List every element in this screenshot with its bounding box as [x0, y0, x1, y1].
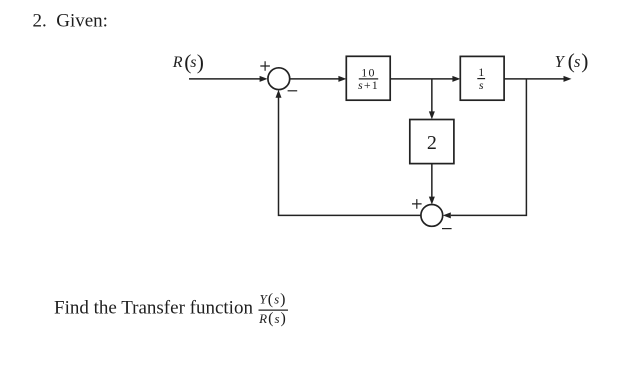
wire G3 to summing junction S2	[431, 164, 433, 197]
svg-text:): )	[581, 49, 588, 73]
arrowhead into block G1	[338, 76, 346, 82]
svg-text:R(s): R(s)	[258, 310, 287, 327]
fraction bar of G2	[477, 78, 485, 80]
svg-text:R: R	[172, 54, 183, 71]
svg-text:Y(s): Y(s)	[260, 291, 287, 308]
fraction bar of G1	[359, 78, 378, 80]
svg-text:Y: Y	[555, 52, 566, 71]
summing junction S1	[268, 68, 290, 90]
block G3 gain 2	[410, 120, 454, 164]
minus sign at S1	[288, 90, 298, 92]
fraction bar	[259, 309, 289, 311]
svg-text:s: s	[479, 78, 484, 92]
svg-text:2. Given:: 2. Given:	[33, 11, 108, 32]
summing junction S2	[421, 205, 443, 227]
svg-text:s: s	[190, 54, 196, 71]
wire feedback S2 to S1	[279, 97, 421, 215]
wire S1 to block G1	[290, 78, 339, 80]
svg-text:s: s	[574, 52, 580, 71]
arrowhead into summing junction S2 from right	[443, 212, 451, 218]
plus sign at S2	[412, 199, 422, 209]
node branch down to block G3	[431, 79, 433, 112]
node branch down from output line	[451, 79, 527, 216]
arrowhead into block G2	[452, 76, 460, 82]
wire G2 to output Y(s)	[504, 78, 564, 80]
arrowhead output	[564, 76, 572, 82]
block G1 10/(s+1)	[346, 56, 390, 100]
svg-text:s+1: s+1	[358, 78, 379, 92]
arrowhead into S2 from top	[429, 197, 435, 205]
arrowhead into summing junction S1	[260, 76, 268, 82]
svg-text:2: 2	[427, 132, 437, 154]
svg-text:Find the Transfer function: Find the Transfer function	[54, 297, 253, 318]
block G2 1/s	[460, 56, 504, 100]
plus sign at S1	[260, 61, 270, 71]
minus sign at S2	[442, 228, 452, 230]
svg-text:): )	[197, 50, 204, 74]
arrowhead into block G3	[429, 111, 435, 119]
wire R(s) input	[189, 78, 260, 80]
wire G1 to block G2	[390, 78, 453, 80]
arrowhead into S1 from below	[276, 90, 282, 98]
